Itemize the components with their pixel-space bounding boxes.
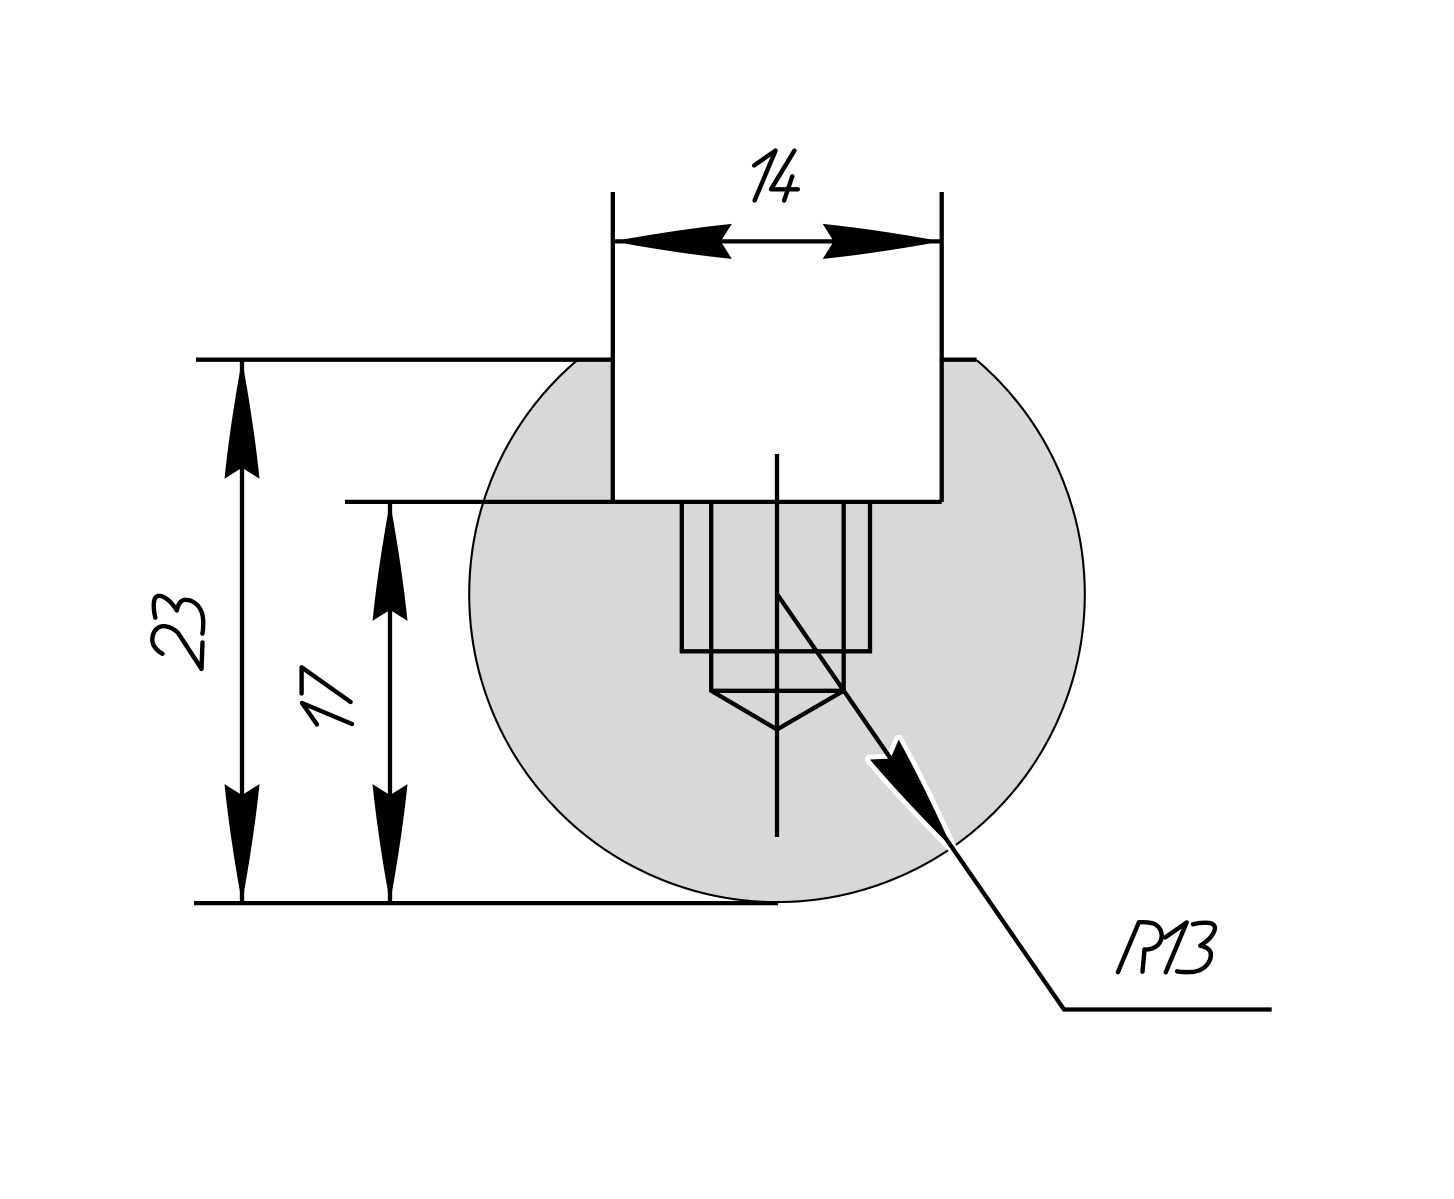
flat top edge / 23 extension line bbox=[196, 358, 611, 362]
drill hole left bbox=[709, 502, 713, 691]
dim line 14 bbox=[613, 239, 942, 243]
flat top edge right bbox=[940, 358, 977, 362]
dim line 17 bbox=[388, 502, 392, 903]
drill shoulder bbox=[711, 689, 844, 693]
drill cone left bbox=[710, 690, 777, 730]
text 23 digit 2 bbox=[152, 626, 202, 669]
arrowhead 17 bottom bbox=[373, 784, 408, 903]
thread bottom bbox=[680, 649, 872, 653]
text 14 digit 1 bbox=[754, 151, 776, 201]
text R13 letter R bbox=[1118, 922, 1162, 972]
drill hole right bbox=[842, 502, 846, 691]
R13 leader arrowhead bbox=[870, 740, 952, 848]
slot left edge / 14 extension line bbox=[611, 192, 615, 502]
arrowhead 14 left bbox=[613, 224, 732, 259]
R13 leader line bbox=[777, 594, 1272, 1010]
sphere body R13 (gray) bbox=[469, 287, 1085, 903]
arrowhead 23 bottom bbox=[225, 784, 260, 903]
text 14 digit 4 bbox=[771, 151, 798, 201]
arrowhead 17 top bbox=[373, 502, 408, 621]
text R13 digit 3 bbox=[1177, 923, 1215, 972]
centerline bbox=[775, 454, 779, 837]
text 17 digit 1 bbox=[302, 703, 352, 725]
text R13 digit 1 bbox=[1165, 922, 1187, 972]
R13 leader halo bbox=[870, 740, 952, 848]
slot bottom edge / 17 extension line bbox=[345, 500, 942, 504]
thread major dia left bbox=[680, 502, 684, 651]
arrowhead 23 top bbox=[225, 360, 260, 479]
bottom tangent / 23-17 extension line bbox=[194, 901, 778, 905]
text 23 digit 3 bbox=[154, 596, 203, 634]
slot cutout bbox=[611, 330, 944, 502]
slot right edge / 14 extension line bbox=[940, 192, 944, 502]
dim line 23 bbox=[240, 360, 244, 903]
arrowhead 14 right bbox=[823, 224, 942, 259]
drill cone right bbox=[777, 690, 845, 730]
text 17 digit 7 bbox=[302, 667, 351, 702]
flat-top cut cover bbox=[420, 240, 1140, 360]
thread major dia right bbox=[868, 502, 872, 651]
